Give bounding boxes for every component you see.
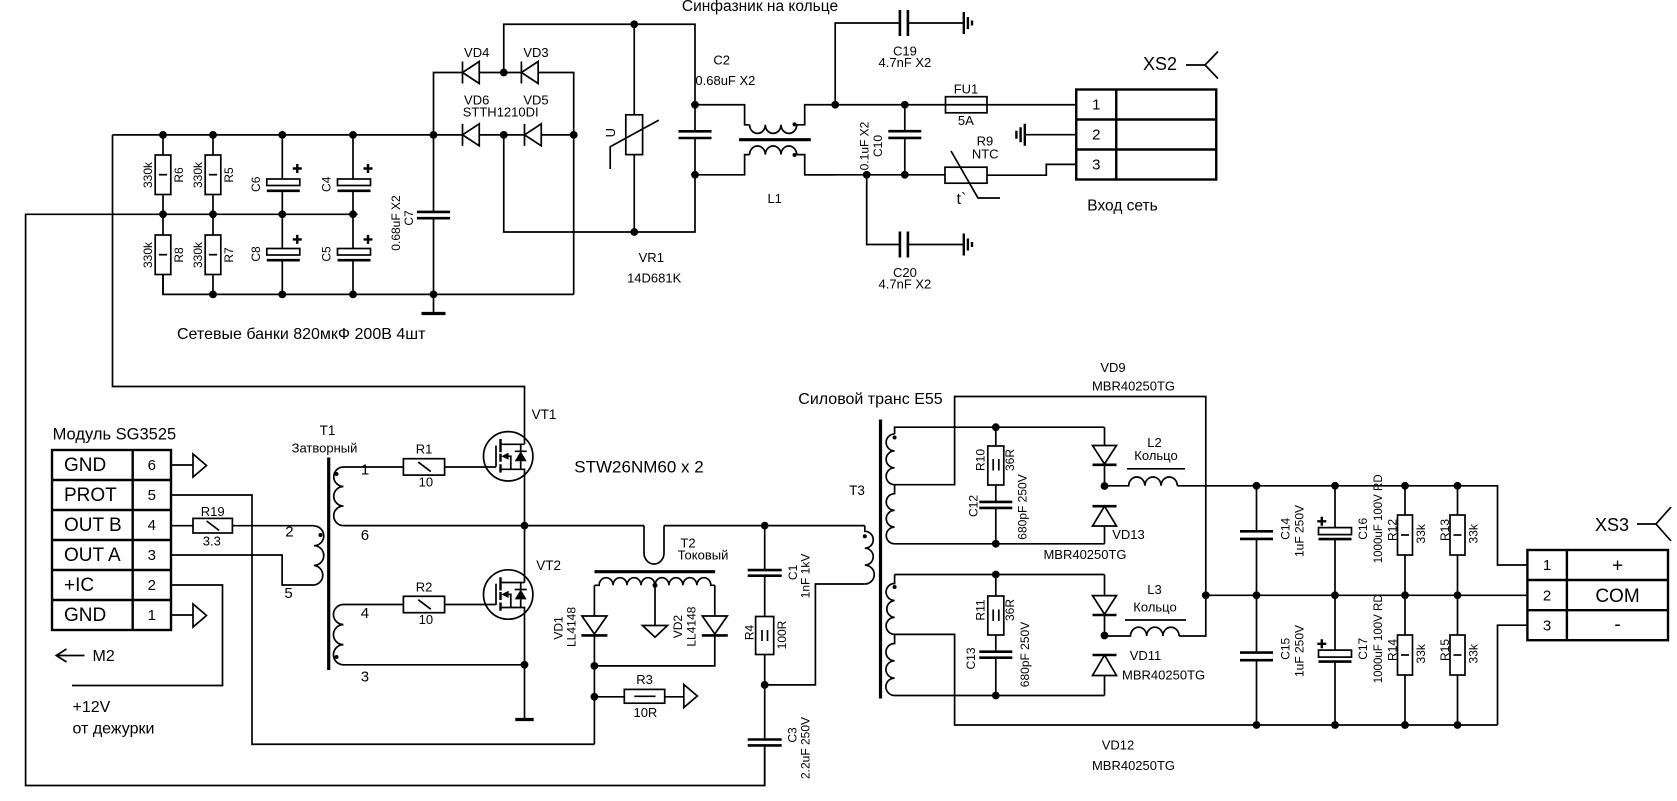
resistor R4 [756, 617, 774, 685]
wire: mid bus [26, 214, 765, 785]
svg-text:Токовый: Токовый [678, 548, 729, 563]
fuse FU1 [946, 97, 988, 113]
svg-text:10R: 10R [633, 705, 657, 720]
arrow at GND pin 6 [171, 454, 207, 477]
svg-text:10: 10 [419, 612, 433, 627]
svg-text:4: 4 [148, 517, 156, 534]
capacitor C13 [979, 652, 1012, 696]
svg-text:330k: 330k [191, 241, 205, 268]
T1 primary winding 2-5 [314, 526, 324, 585]
svg-text:C12: C12 [967, 495, 981, 517]
T3 secondary winding A [886, 427, 1104, 485]
svg-text:R3: R3 [636, 672, 653, 687]
svg-text:R12: R12 [1386, 519, 1400, 541]
arrow at GND pin 1 [171, 604, 207, 627]
svg-text:680pF 250V: 680pF 250V [1018, 622, 1032, 687]
svg-text:C4: C4 [320, 176, 334, 192]
svg-text:XS2: XS2 [1143, 54, 1177, 74]
wire R9 to XS2 pin3 [987, 164, 1076, 175]
svg-text:100R: 100R [775, 620, 789, 649]
resistor R12 [1398, 486, 1413, 596]
wire: T1 pin6 to VT1 source node / mid rail [344, 525, 645, 527]
svg-text:C5: C5 [320, 246, 334, 262]
capacitor C7 [417, 135, 450, 295]
svg-text:STTH1210DI: STTH1210DI [463, 104, 539, 119]
svg-text:6: 6 [148, 457, 156, 474]
resistor R1 [403, 459, 496, 475]
svg-text:R8: R8 [172, 247, 186, 263]
wire: AC N net from bridge to C2 bottom [504, 135, 695, 232]
svg-text:1000uF 100V RD: 1000uF 100V RD [1373, 474, 1385, 563]
ground under C7 [422, 294, 446, 313]
capacitor C6 [267, 135, 302, 214]
svg-text:VT1: VT1 [532, 407, 557, 422]
svg-text:R4: R4 [742, 625, 756, 641]
resistor R7 [205, 214, 221, 294]
wire: T1 pin4 to R2 [344, 604, 404, 606]
wire: plus rail [1177, 486, 1527, 565]
resistor R2 [403, 596, 496, 612]
svg-text:VD3: VD3 [523, 45, 548, 60]
svg-text:L3: L3 [1147, 582, 1161, 597]
capacitor C17 (electrolytic) [1317, 595, 1351, 725]
capacitor C12 [979, 502, 1012, 544]
resistor R14 [1398, 595, 1413, 725]
wire: +IC pin 2 to +12V stub [72, 585, 223, 686]
svg-text:33k: 33k [1467, 523, 1481, 543]
chassis ground at XS2 pin2 [1016, 124, 1076, 146]
capacitor C20 with chassis ground [867, 175, 972, 258]
diode VD4 [463, 62, 480, 84]
svg-text:R7: R7 [222, 247, 236, 263]
capacitor C8 [267, 214, 302, 294]
svg-text:Вход сеть: Вход сеть [1087, 198, 1157, 215]
transformer T3 core [879, 420, 882, 699]
module SG3525 connector box [52, 450, 171, 630]
svg-text:+12V: +12V [73, 699, 111, 716]
svg-text:T1: T1 [320, 423, 336, 438]
capacitor C14 [1240, 486, 1273, 596]
resistor R15 [1450, 595, 1465, 725]
svg-text:VD1: VD1 [552, 616, 566, 640]
svg-text:2: 2 [148, 577, 156, 594]
transformer T1 core [327, 458, 330, 671]
wire: L line from L1 to FU1 [835, 104, 945, 106]
resistor R13 [1450, 486, 1465, 596]
thermistor R9 NTC [945, 151, 1000, 198]
T3 primary winding [863, 526, 874, 584]
svg-text:330k: 330k [191, 161, 205, 188]
svg-text:от дежурки: от дежурки [73, 721, 155, 738]
svg-text:GND: GND [64, 455, 106, 476]
svg-text:4.7nF X2: 4.7nF X2 [879, 55, 932, 70]
svg-text:R5: R5 [222, 167, 236, 183]
svg-text:3: 3 [361, 669, 369, 686]
inductor L1 (common mode choke) [695, 105, 835, 175]
svg-text:36R: 36R [1003, 599, 1017, 621]
svg-text:C8: C8 [249, 246, 263, 262]
svg-text:L1: L1 [767, 191, 781, 206]
diode VD3 [521, 62, 538, 84]
wire FU1 to XS2 pin1 [987, 104, 1076, 106]
wire: drain rail from top bus to VT1 [113, 135, 525, 444]
T2 secondary winding [595, 578, 715, 586]
svg-text:R19: R19 [201, 504, 225, 519]
wire: bottom bus [163, 254, 574, 294]
svg-text:2: 2 [285, 524, 293, 541]
svg-text:C13: C13 [964, 647, 978, 669]
T1 secondary winding 4-3 [333, 605, 343, 665]
svg-text:VD11: VD11 [1130, 648, 1162, 663]
capacitor C16 (electrolytic) [1317, 486, 1351, 596]
svg-text:VD4: VD4 [464, 45, 489, 60]
resistor R11 [988, 575, 1004, 652]
wire: top AC L net [504, 24, 695, 105]
svg-text:R13: R13 [1438, 519, 1452, 541]
svg-text:4: 4 [361, 605, 369, 622]
capacitor C3 [748, 685, 782, 786]
svg-text:C10: C10 [871, 135, 885, 157]
svg-text:NTC: NTC [972, 147, 999, 162]
svg-text:1: 1 [1092, 97, 1100, 114]
svg-text:Синфазник на кольце: Синфазник на кольце [682, 0, 838, 15]
capacitor C5 [338, 214, 373, 294]
svg-text:5A: 5A [958, 113, 974, 128]
T3 secondary winding D [886, 634, 1105, 695]
svg-text:0.68uF X2: 0.68uF X2 [695, 73, 755, 88]
T2 center tap with arrow ground [643, 583, 668, 637]
wire: minus rail riser to XS3 [1498, 625, 1528, 725]
svg-text:+: + [1612, 556, 1623, 577]
svg-text:C6: C6 [249, 176, 263, 192]
svg-text:M2: M2 [93, 648, 115, 665]
svg-text:1: 1 [361, 462, 369, 479]
wire: N line from L1 to R9 [805, 174, 945, 176]
svg-text:+IC: +IC [64, 575, 94, 596]
svg-text:U: U [603, 128, 618, 137]
connector XS2 [1076, 90, 1216, 180]
svg-text:4.7nF X2: 4.7nF X2 [879, 276, 932, 291]
svg-text:3.3: 3.3 [203, 534, 221, 549]
svg-text:-: - [1614, 615, 1620, 636]
arrow M2 [56, 649, 84, 662]
svg-text:PROT: PROT [64, 485, 117, 506]
resistor R19 [171, 518, 314, 533]
T1 secondary winding 1-6 [334, 467, 344, 526]
svg-text:C2: C2 [713, 53, 730, 68]
svg-text:36R: 36R [1003, 449, 1017, 471]
wire: upper center tap to COM node [895, 397, 1206, 596]
svg-text:R2: R2 [416, 580, 433, 595]
junction dots input section [159, 20, 909, 298]
wire: OUT A pin 3 to T1 pin 5 [171, 555, 314, 585]
svg-text:5: 5 [148, 487, 156, 504]
svg-text:OUT A: OUT A [64, 545, 121, 566]
svg-text:VT2: VT2 [536, 558, 561, 573]
diode VD13 [1093, 506, 1117, 544]
connector XS3 [1527, 550, 1668, 640]
capacitor C1 [748, 526, 782, 617]
junction dots module/T1 section [521, 522, 529, 669]
svg-text:R14: R14 [1386, 639, 1400, 661]
svg-text:2: 2 [1543, 588, 1551, 605]
svg-text:C16: C16 [1356, 517, 1370, 539]
wire: upper diode row y=72.5 [434, 73, 574, 295]
svg-text:6: 6 [361, 527, 369, 544]
svg-text:t`: t` [957, 191, 967, 208]
svg-text:STW26NM60 x 2: STW26NM60 x 2 [574, 458, 703, 477]
svg-text:Сетевые банки 820мкФ 200В 4шт: Сетевые банки 820мкФ 200В 4шт [177, 326, 426, 343]
svg-text:T3: T3 [849, 483, 865, 498]
transformer T2 core [595, 570, 716, 573]
diode VD12 (upper of lower group) [1093, 575, 1117, 636]
diode VD6 [463, 124, 480, 146]
svg-text:MBR40250TG: MBR40250TG [1043, 547, 1126, 562]
junction dots output section [992, 423, 1462, 729]
junction dots T2 section [591, 522, 769, 701]
svg-text:14D681K: 14D681K [627, 271, 682, 286]
capacitor C4 [338, 135, 373, 214]
svg-text:Кольцо: Кольцо [1134, 448, 1177, 463]
transistor VT2 (MOSFET) [484, 526, 533, 720]
svg-text:C17: C17 [1356, 637, 1370, 659]
svg-text:MBR40250TG: MBR40250TG [1122, 668, 1205, 683]
wire: COM rail [1206, 594, 1528, 596]
svg-text:C15: C15 [1279, 637, 1293, 659]
svg-text:COM: COM [1595, 586, 1639, 607]
svg-text:XS3: XS3 [1595, 515, 1629, 535]
svg-text:LL4148: LL4148 [685, 606, 699, 646]
svg-text:1: 1 [148, 607, 156, 624]
inductor L3 [1105, 595, 1206, 636]
svg-text:330k: 330k [141, 161, 155, 188]
svg-text:1uF 250V: 1uF 250V [1292, 505, 1306, 557]
svg-text:R15: R15 [1438, 639, 1452, 661]
svg-text:Силовой транс E55: Силовой транс E55 [798, 391, 942, 408]
wire: mid rail with T2 primary dip [644, 526, 664, 564]
diode VD1 [581, 585, 607, 744]
wire: T1 pin3 to VT2 source [344, 664, 525, 666]
diode VD9 [1093, 427, 1117, 486]
varistor VR1 [610, 24, 659, 232]
inductor L2 [1105, 477, 1178, 486]
resistor R6 [155, 135, 171, 214]
svg-text:OUT B: OUT B [64, 515, 122, 536]
capacitor C10 [888, 105, 921, 175]
resistor R10 [988, 427, 1004, 502]
svg-text:3: 3 [1543, 618, 1551, 635]
transistor VT1 (MOSFET) [484, 432, 533, 526]
wire: top bus / lower diode row y=134.85 [113, 134, 574, 136]
svg-text:1nF 1kV: 1nF 1kV [798, 554, 812, 599]
T3 secondary winding B [886, 485, 1104, 544]
svg-text:680pF 250V: 680pF 250V [1015, 474, 1029, 539]
capacitor C19 with chassis ground [835, 10, 972, 105]
wire: PROT pin 5 to T2 diode node [171, 495, 594, 744]
svg-text:33k: 33k [1414, 643, 1428, 663]
diode VD5 [525, 124, 542, 146]
svg-text:R6: R6 [172, 167, 186, 183]
wire: lower center tap to minus rail [895, 634, 1498, 725]
svg-text:R1: R1 [416, 442, 433, 457]
svg-text:VD13: VD13 [1112, 527, 1145, 542]
svg-text:2.2uF 250V: 2.2uF 250V [798, 717, 812, 779]
svg-text:0.1uF X2: 0.1uF X2 [858, 121, 872, 170]
resistor R8 [155, 214, 171, 294]
svg-text:33k: 33k [1414, 523, 1428, 543]
svg-text:Затворный: Затворный [292, 441, 358, 456]
svg-text:VD9: VD9 [1100, 360, 1125, 375]
diode VD2 [594, 585, 727, 666]
svg-text:Кольцо: Кольцо [1133, 600, 1176, 615]
svg-text:3: 3 [148, 547, 156, 564]
svg-text:LL4148: LL4148 [565, 607, 579, 647]
diode VD11 [1093, 655, 1117, 696]
svg-text:VD12: VD12 [1102, 738, 1135, 753]
svg-text:R11: R11 [974, 599, 988, 620]
svg-text:2: 2 [1092, 127, 1100, 144]
svg-text:R10: R10 [974, 449, 988, 471]
svg-text:33k: 33k [1467, 643, 1481, 663]
svg-text:FU1: FU1 [954, 82, 979, 97]
capacitor C2 [679, 105, 712, 175]
svg-text:MBR40250TG: MBR40250TG [1092, 379, 1175, 394]
svg-text:1000uF 100V RD: 1000uF 100V RD [1373, 594, 1385, 683]
svg-text:1: 1 [1543, 557, 1551, 574]
resistor R3 with arrow [594, 685, 697, 708]
svg-text:C14: C14 [1279, 517, 1293, 539]
ground under VT2 [515, 718, 533, 721]
capacitor C15 [1240, 595, 1273, 725]
svg-text:1uF 250V: 1uF 250V [1292, 625, 1306, 677]
svg-text:GND: GND [64, 605, 106, 626]
resistor R5 [205, 135, 221, 214]
svg-text:MBR40250TG: MBR40250TG [1092, 758, 1175, 773]
svg-text:3: 3 [1092, 157, 1100, 174]
svg-text:10: 10 [419, 475, 433, 490]
svg-text:VD2: VD2 [671, 615, 685, 639]
wire: C1/R4 node to T3 primary bottom [765, 584, 865, 685]
T3 secondary winding C [886, 575, 1104, 635]
wire: T1 pin1 to R1 [344, 466, 404, 468]
svg-text:VR1: VR1 [639, 250, 664, 265]
svg-text:330k: 330k [141, 241, 155, 268]
svg-text:Модуль SG3525: Модуль SG3525 [53, 426, 177, 444]
svg-text:5: 5 [284, 585, 292, 602]
svg-text:C7: C7 [402, 210, 416, 226]
